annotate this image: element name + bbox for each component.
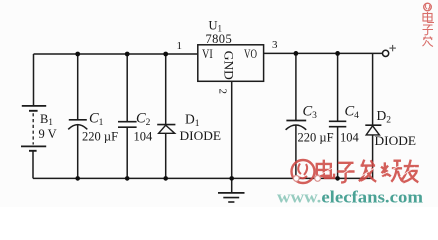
watermark glyphs bottom (317, 160, 419, 183)
svg-text:104: 104 (134, 130, 154, 144)
capacitor C4 (329, 53, 346, 178)
watermark top right ring (424, 3, 432, 11)
svg-text:104: 104 (340, 131, 360, 145)
svg-text:C3: C3 (303, 104, 318, 122)
svg-text:220 µF: 220 µF (82, 130, 118, 144)
watermark logo dots on wire (293, 176, 320, 182)
svg-text:B1: B1 (40, 112, 53, 127)
capacitor C1 (68, 54, 87, 178)
svg-text:DIODE: DIODE (180, 129, 222, 143)
op-amp U1 7805 regulator box (198, 45, 264, 82)
svg-text:C4: C4 (345, 104, 360, 122)
capacitor C2 (118, 54, 137, 178)
diode D1 (157, 54, 175, 178)
node junction dots (75, 51, 340, 181)
svg-text:DIODE: DIODE (375, 134, 417, 148)
svg-text:1: 1 (177, 40, 183, 52)
wire bottom bus (33, 177, 373, 179)
svg-text:www.elecfans.com: www.elecfans.com (277, 188, 423, 207)
svg-text:7805: 7805 (206, 32, 233, 46)
wire left vertical to battery (33, 54, 35, 105)
diode D2 (365, 53, 381, 178)
wire top bus left (34, 53, 198, 55)
plus sign at output (389, 45, 396, 51)
svg-text:3: 3 (272, 39, 278, 51)
svg-text:VI: VI (202, 47, 213, 61)
capacitor C3 (286, 53, 307, 178)
svg-text:220 µF: 220 µF (298, 131, 334, 145)
watermark logo ring bottom (292, 160, 315, 183)
svg-text:C1: C1 (89, 111, 104, 129)
svg-text:D1: D1 (185, 112, 200, 130)
watermark top right glyphs (423, 12, 435, 47)
wire pin3 output bus (264, 52, 383, 54)
svg-text:GND: GND (222, 51, 236, 80)
ground (218, 193, 245, 202)
svg-text:9 V: 9 V (39, 127, 57, 141)
svg-text:2: 2 (217, 89, 229, 95)
svg-text:D2: D2 (377, 108, 392, 126)
watermark glyph white veins (318, 165, 415, 177)
svg-text:VO: VO (244, 47, 257, 61)
battery B1 (21, 106, 46, 151)
svg-text:C2: C2 (136, 111, 151, 129)
node output terminal (383, 50, 389, 56)
wire battery to bottom bus (32, 151, 34, 179)
wire pin2 to ground (231, 81, 233, 192)
